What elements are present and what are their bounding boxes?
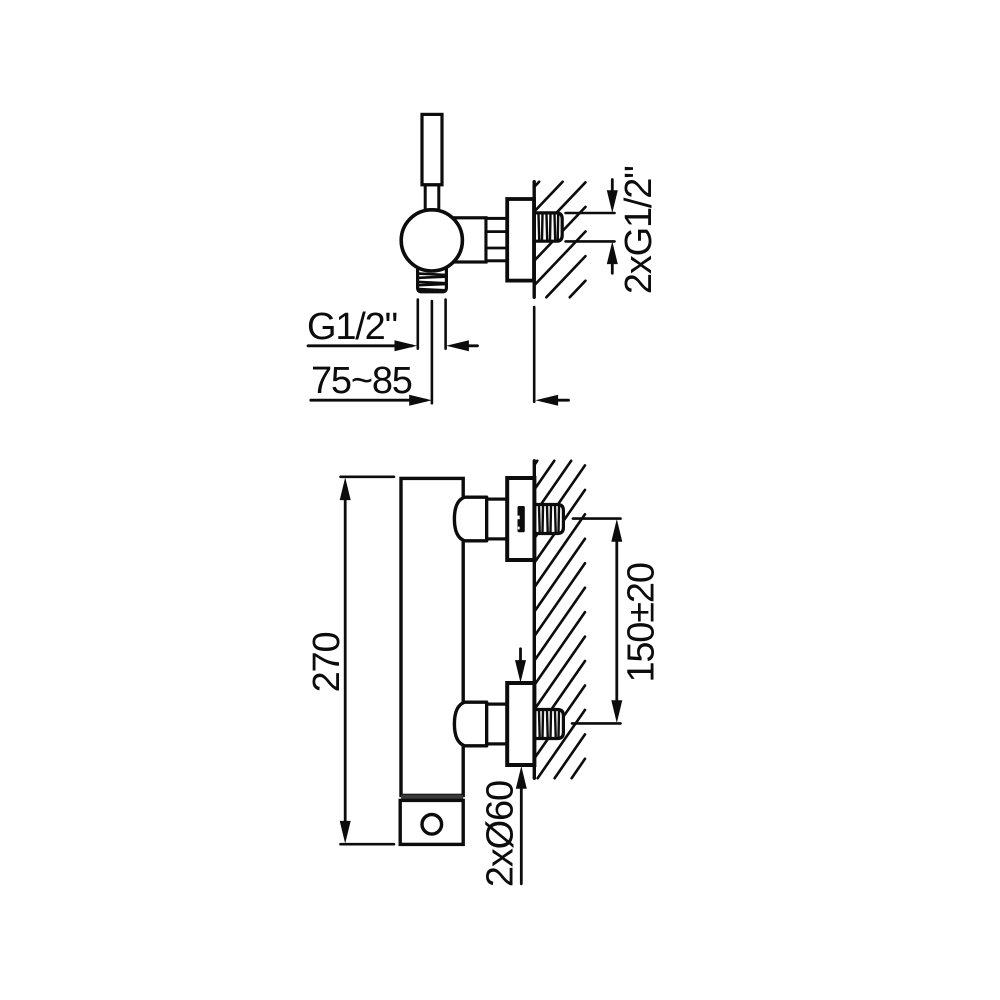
supply pipe thread G1/2 into wall <box>534 213 562 241</box>
270 extension line top <box>341 475 395 478</box>
270 dimension line with arrows <box>344 498 347 823</box>
svg-text:2xG1/2": 2xG1/2" <box>618 166 660 294</box>
mount neck <box>487 499 508 539</box>
svg-text:150±20: 150±20 <box>621 563 663 682</box>
valve handle lever <box>422 114 442 184</box>
2xG1/2 extension line upper <box>566 212 615 215</box>
svg-text:270: 270 <box>306 633 348 693</box>
G1/2 leader line with arrow <box>308 344 412 347</box>
wall-mount dome <box>454 702 486 746</box>
handle rod <box>425 185 439 210</box>
Ø60 upper pointer arrow <box>519 649 522 661</box>
wall bolt G1/2 thread <box>535 710 564 739</box>
150±20 dimension line with arrows <box>615 539 618 703</box>
150±20 extension line bottom <box>572 722 621 725</box>
wall bolt G1/2 thread <box>535 505 564 534</box>
svg-text:G1/2": G1/2" <box>307 306 397 348</box>
bottom end cap square <box>400 800 463 844</box>
valve body sphere <box>401 210 462 271</box>
150±20 extension line top <box>573 517 621 520</box>
wall escutcheon flange (top view) <box>507 199 534 281</box>
svg-text:75~85: 75~85 <box>311 360 412 402</box>
end cap hole <box>422 815 442 835</box>
mixer bar column <box>401 478 463 795</box>
wall extension line (below wall) <box>533 307 536 402</box>
wall-mount dome <box>454 497 486 541</box>
connector nut section <box>486 218 507 260</box>
wall hatching (top view) <box>534 182 585 298</box>
svg-text:2xØ60: 2xØ60 <box>480 781 522 887</box>
dark separator band <box>401 795 463 801</box>
75~85 wall-side arrow <box>535 395 558 406</box>
centerline of outlet <box>431 301 434 403</box>
wall surface line (top view) <box>533 182 536 298</box>
outlet spout thread G1/2 (below valve body) <box>418 266 447 292</box>
wall surface line (bottom view) <box>533 461 536 778</box>
extension line G1/2 left <box>416 300 419 349</box>
wall hatching (bottom view) <box>534 461 585 778</box>
extension line G1/2 right <box>444 300 447 349</box>
screw slot <box>518 506 525 532</box>
escutcheon plate Ø60 <box>507 683 534 765</box>
escutcheon plate Ø60 <box>507 478 534 560</box>
270 extension line bottom <box>341 843 395 846</box>
2xG1/2 dimension arrows <box>611 180 614 196</box>
75~85 leader line with arrow <box>311 399 426 402</box>
2xG1/2 extension line lower <box>566 240 615 243</box>
mount neck <box>487 704 508 744</box>
valve body horizontal connector <box>450 218 486 262</box>
G1/2 right arrow <box>446 340 469 351</box>
Ø60 lower pointer arrow <box>520 788 523 884</box>
